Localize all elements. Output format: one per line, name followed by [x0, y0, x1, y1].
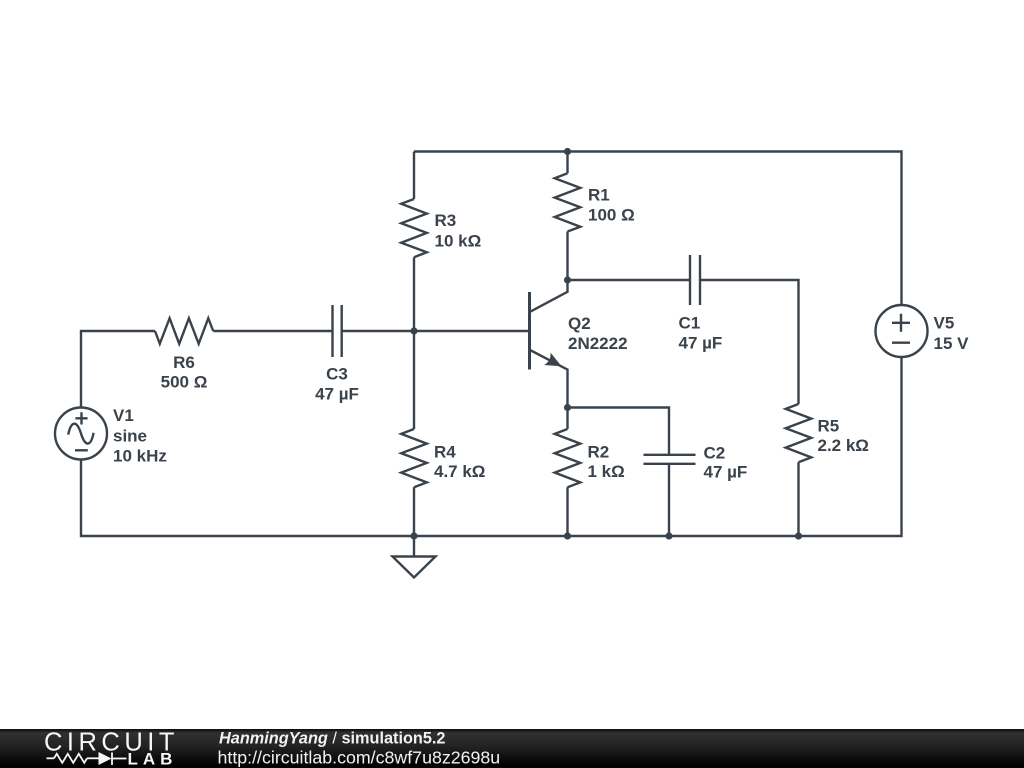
svg-text:C3: C3	[326, 365, 348, 384]
svg-text:C2: C2	[704, 444, 726, 463]
svg-text:47 µF: 47 µF	[679, 334, 723, 353]
svg-text:15 V: 15 V	[934, 334, 970, 353]
svg-text:LAB: LAB	[128, 750, 178, 768]
svg-text:V1: V1	[113, 406, 134, 425]
svg-text:Q2: Q2	[568, 314, 591, 333]
svg-text:C1: C1	[679, 314, 701, 333]
svg-text:500 Ω: 500 Ω	[161, 373, 208, 392]
svg-text:1 kΩ: 1 kΩ	[588, 462, 625, 481]
svg-text:47 µF: 47 µF	[704, 463, 748, 482]
svg-text:10 kHz: 10 kHz	[113, 447, 167, 466]
svg-text:2N2222: 2N2222	[568, 334, 628, 353]
svg-text:4.7 kΩ: 4.7 kΩ	[434, 462, 485, 481]
svg-text:47 µF: 47 µF	[315, 385, 359, 404]
svg-text:100 Ω: 100 Ω	[588, 206, 635, 225]
svg-text:R2: R2	[588, 443, 610, 462]
svg-text:R3: R3	[435, 211, 457, 230]
svg-text:R6: R6	[173, 353, 195, 372]
svg-text:R5: R5	[818, 417, 840, 436]
svg-text:http://circuitlab.com/c8wf7u8z: http://circuitlab.com/c8wf7u8z2698u	[218, 748, 501, 768]
svg-text:V5: V5	[934, 314, 955, 333]
svg-text:sine: sine	[113, 427, 147, 446]
svg-text:HanmingYang / simulation5.2: HanmingYang / simulation5.2	[219, 730, 446, 748]
svg-text:2.2 kΩ: 2.2 kΩ	[818, 436, 869, 455]
svg-text:R1: R1	[588, 186, 610, 205]
svg-text:10 kΩ: 10 kΩ	[435, 232, 482, 251]
svg-text:R4: R4	[434, 443, 456, 462]
